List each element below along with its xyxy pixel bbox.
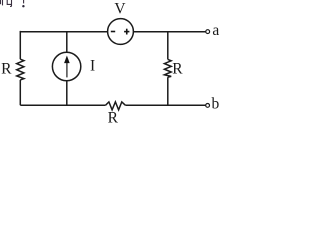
svg-text:R: R bbox=[108, 109, 119, 125]
svg-text:a: a bbox=[212, 22, 219, 39]
svg-text:V: V bbox=[114, 1, 126, 18]
svg-text:R: R bbox=[172, 61, 183, 78]
svg-text:I: I bbox=[90, 58, 95, 75]
svg-text:R: R bbox=[1, 61, 12, 78]
svg-text:b: b bbox=[212, 95, 220, 112]
